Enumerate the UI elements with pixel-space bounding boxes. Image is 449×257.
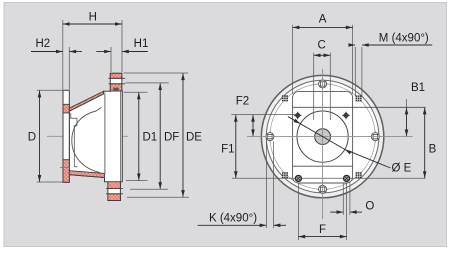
bolt circle bbox=[270, 84, 375, 189]
tapped hole M (bottom left) bbox=[282, 172, 288, 178]
cavity chamfer line bbox=[96, 107, 102, 111]
ext line K right bbox=[273, 142, 275, 229]
dimension H1 right tail bbox=[122, 51, 148, 53]
flange rim lower hatch bbox=[110, 84, 122, 91]
dimension B bbox=[424, 108, 426, 178]
svg-text:H1: H1 bbox=[134, 38, 149, 50]
right view vertical centerline bbox=[322, 69, 324, 219]
ext line K left bbox=[265, 142, 267, 229]
ext line D1 top bbox=[124, 91, 148, 93]
left view horizontal centerline bbox=[47, 135, 128, 137]
plate lower hole edge line bbox=[60, 167, 70, 169]
ext line A left bbox=[292, 25, 294, 94]
dimension H2 left tail bbox=[31, 51, 63, 53]
left flange plate bbox=[63, 90, 69, 182]
svg-text:F1: F1 bbox=[221, 143, 234, 155]
corner screw (top right) bbox=[342, 111, 350, 119]
right view horizontal centerline bbox=[247, 136, 413, 138]
square face bottom edge bbox=[293, 165, 353, 167]
dimension diameter E diagonal bbox=[288, 117, 345, 150]
bearing seat step 2 bbox=[74, 125, 77, 127]
dimension D1 bbox=[138, 93, 140, 181]
svg-text:A: A bbox=[319, 13, 327, 25]
dimension H2 right tail bbox=[70, 51, 83, 53]
rim bolt hole lower edge bbox=[109, 83, 126, 85]
foot bolt hole lower edge bbox=[106, 193, 123, 195]
spigot circle E bbox=[297, 111, 348, 162]
ext line C right bbox=[329, 53, 331, 120]
ext line H1 left bbox=[110, 47, 112, 72]
ext line H/H1 right bbox=[121, 20, 123, 72]
svg-text:D1: D1 bbox=[143, 132, 158, 144]
gear housing silhouette bbox=[293, 92, 353, 183]
ext line O left bbox=[342, 183, 344, 216]
rim bolt hole upper edge bbox=[109, 77, 126, 79]
body cylinder silhouette bbox=[104, 93, 106, 175]
dimension A bbox=[293, 26, 353, 28]
center shaft hole bbox=[315, 129, 331, 145]
dimension K leader bbox=[198, 224, 267, 226]
svg-text:M (4x90°): M (4x90°) bbox=[379, 33, 429, 45]
svg-text:H: H bbox=[89, 12, 97, 24]
dimension D bbox=[39, 91, 41, 182]
bell cavity arc bbox=[72, 111, 100, 173]
foot top hatch bbox=[108, 182, 121, 189]
ext line A right bbox=[352, 25, 354, 94]
bell housing silhouette (section profile) bbox=[69, 73, 122, 200]
ext line H2 right bbox=[68, 47, 70, 90]
ext line H/H2 left bbox=[62, 20, 64, 90]
bolt hole K (bottom) bbox=[317, 188, 329, 190]
ext line F left bbox=[297, 183, 299, 241]
tapped hole M (bottom right) bbox=[356, 172, 362, 178]
svg-text:O: O bbox=[365, 201, 374, 213]
dimension M leader bbox=[348, 44, 355, 46]
svg-text:C: C bbox=[317, 40, 325, 52]
foot bottom hatch bbox=[108, 194, 121, 201]
bearing seat vertical bbox=[76, 118, 78, 126]
dimension B1 bbox=[406, 108, 408, 137]
svg-text:K (4x90°): K (4x90°) bbox=[209, 213, 257, 225]
bolt hole K (top) bbox=[317, 83, 329, 85]
ext line F2/F1 top (through screws) bbox=[231, 114, 299, 116]
ext line M left bbox=[354, 47, 356, 96]
bearing bore bottom stub bbox=[74, 166, 77, 168]
tapped hole M (top left) bbox=[282, 95, 288, 101]
svg-text:D: D bbox=[28, 132, 36, 144]
dimension O bbox=[330, 211, 343, 213]
ext line M right bbox=[361, 47, 363, 96]
B1 leader stub bbox=[406, 99, 408, 107]
plate inner step bbox=[70, 113, 72, 118]
ext line D top bbox=[37, 89, 70, 91]
dimension F bbox=[298, 236, 346, 238]
dimension F1 bbox=[235, 115, 237, 178]
flange rim inner circle bbox=[266, 80, 379, 193]
bolt hole K (left) bbox=[264, 136, 276, 138]
cone top wall (section) bbox=[69, 91, 103, 111]
svg-text:DE: DE bbox=[186, 132, 202, 144]
plate top hatch (section) bbox=[63, 104, 69, 113]
svg-text:F2: F2 bbox=[236, 96, 249, 108]
lower screw O (right) bbox=[344, 175, 350, 181]
flange rim top hatch bbox=[110, 73, 122, 78]
dimension H1 left tail bbox=[96, 51, 111, 53]
flange face line bbox=[120, 91, 122, 182]
flange outer circle bbox=[261, 75, 383, 197]
svg-text:Ø E: Ø E bbox=[392, 162, 412, 174]
ext line DE bottom bbox=[127, 196, 189, 198]
svg-text:H2: H2 bbox=[35, 38, 50, 50]
ext line D bottom bbox=[37, 181, 66, 183]
ext line DE top bbox=[124, 72, 189, 74]
svg-text:B: B bbox=[429, 143, 437, 155]
dimension DE bbox=[182, 73, 184, 197]
svg-text:B1: B1 bbox=[411, 82, 425, 94]
ext line DF top bbox=[126, 82, 169, 84]
leader to label E bbox=[345, 149, 391, 168]
corner screw (top left) bbox=[294, 111, 302, 119]
cone bottom wall (section) bbox=[69, 171, 104, 178]
dimension C bbox=[314, 54, 331, 56]
square face top edge + ext line B1/B bbox=[293, 106, 426, 108]
ext line C left bbox=[313, 53, 315, 120]
rim shadow detail bbox=[113, 88, 118, 91]
dimension H bbox=[63, 23, 122, 25]
plate bottom hatch (section) bbox=[63, 160, 69, 183]
dimension DF bbox=[159, 83, 161, 189]
ext line DF bottom bbox=[130, 188, 168, 190]
bolt hole K (right) bbox=[369, 136, 381, 138]
svg-text:F: F bbox=[319, 224, 326, 236]
dimension F2 bbox=[252, 115, 254, 136]
svg-text:DF: DF bbox=[164, 132, 179, 144]
tapped hole M (top right) bbox=[356, 95, 362, 101]
ext line O right bbox=[349, 183, 351, 216]
lower screw O (left) bbox=[295, 175, 301, 181]
ext line F1/B bottom (through lower screws) bbox=[232, 177, 426, 179]
bearing bore line bbox=[73, 126, 75, 167]
foot bolt hole upper edge bbox=[106, 187, 123, 189]
ext line F right bbox=[346, 183, 348, 241]
bearing seat step line bbox=[69, 117, 77, 119]
ext line D1 bottom bbox=[126, 180, 148, 182]
